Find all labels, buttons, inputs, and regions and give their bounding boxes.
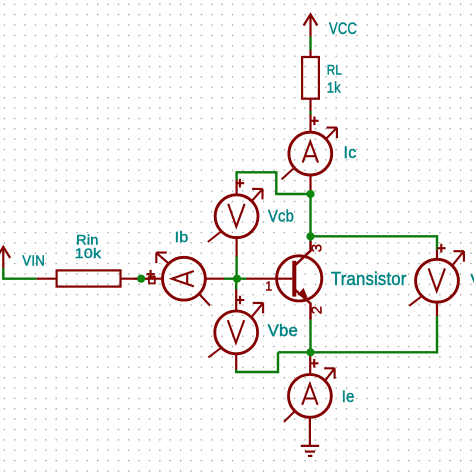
label Transistor — [331, 269, 407, 289]
junction base — [233, 275, 241, 283]
label Ib — [175, 229, 189, 246]
resistor RL — [302, 50, 319, 111]
svg-text:1k: 1k — [327, 79, 341, 96]
resistor Rin — [37, 270, 141, 286]
wire Vbe top to base junction — [235, 279, 237, 290]
wire Vce bottom to emitter rail — [278, 316, 437, 352]
svg-text:Ib: Ib — [175, 229, 189, 246]
label Vce (clipped at edge) — [471, 271, 474, 290]
svg-text:VCC: VCC — [329, 20, 357, 38]
svg-text:2: 2 — [309, 306, 326, 315]
svg-text:10k: 10k — [75, 245, 103, 261]
label 10k — [75, 245, 103, 261]
ammeter Ie — [284, 352, 335, 438]
wire VCC power to RL pin — [309, 37, 311, 51]
label Ie — [342, 388, 355, 406]
svg-text:Ie: Ie — [342, 388, 355, 406]
svg-text:Ic: Ic — [344, 144, 357, 162]
label 1k — [327, 79, 341, 96]
junction emitter — [306, 348, 314, 356]
pin number 2 — [309, 306, 326, 315]
voltmeter Vbe — [208, 290, 263, 370]
wire Vbe bottom loop to emitter rail — [236, 352, 278, 372]
wire Vcb bottom to base junction — [235, 257, 237, 279]
wire Vcb top loop — [237, 172, 311, 194]
ammeter Ib — [141, 253, 224, 306]
wire collector junction to Vce meter (top rail) — [311, 236, 438, 250]
svg-text:3: 3 — [308, 244, 325, 253]
svg-text:Vce: Vce — [471, 271, 474, 290]
letter A of Ic meter — [303, 142, 318, 163]
label RL — [327, 62, 342, 78]
power symbol VIN — [0, 247, 10, 269]
voltmeter Vcb — [208, 179, 263, 257]
transistor Q (NPN) — [247, 241, 322, 320]
wire Rin to Ib junction — [134, 278, 150, 280]
wire base junction to transistor base pin — [237, 278, 247, 280]
svg-text:1: 1 — [265, 279, 272, 293]
letter A of Ib meter (rotated) — [172, 271, 194, 286]
svg-text:RL: RL — [327, 62, 342, 78]
wire VIN to Rin — [3, 268, 36, 279]
letter A of Ie meter — [302, 384, 317, 405]
svg-text:Transistor: Transistor — [331, 269, 407, 289]
letter V of Vbe meter — [228, 320, 244, 343]
power symbol VCC — [304, 14, 318, 36]
label Rin — [76, 232, 99, 248]
wire collector vertical (Ic junction to Vce junction) — [309, 194, 311, 241]
pin number 3 — [308, 244, 325, 253]
svg-text:Vcb: Vcb — [268, 207, 294, 226]
wire Ib to base junction — [224, 278, 237, 280]
label VCC — [329, 20, 357, 38]
ground — [301, 438, 319, 456]
label Vbe — [268, 322, 298, 340]
svg-text:VIN: VIN — [22, 253, 45, 269]
letter V of Vcb meter — [228, 204, 244, 227]
voltmeter Vce (right) — [409, 244, 464, 316]
wire RL to ammeter Ic — [309, 111, 311, 115]
junction collector / Vce — [306, 232, 314, 240]
pin number 1 — [265, 279, 272, 293]
ammeter Ic — [282, 115, 337, 195]
junction Rin / Ib — [137, 275, 145, 283]
junction collector / Vcb — [306, 190, 314, 198]
svg-text:Vbe: Vbe — [268, 322, 298, 340]
label Vcb — [268, 207, 294, 226]
label Ic — [344, 144, 357, 162]
wire transistor emitter to Ie — [309, 320, 311, 353]
label VIN — [22, 253, 45, 269]
letter V of Vce meter — [429, 268, 445, 291]
